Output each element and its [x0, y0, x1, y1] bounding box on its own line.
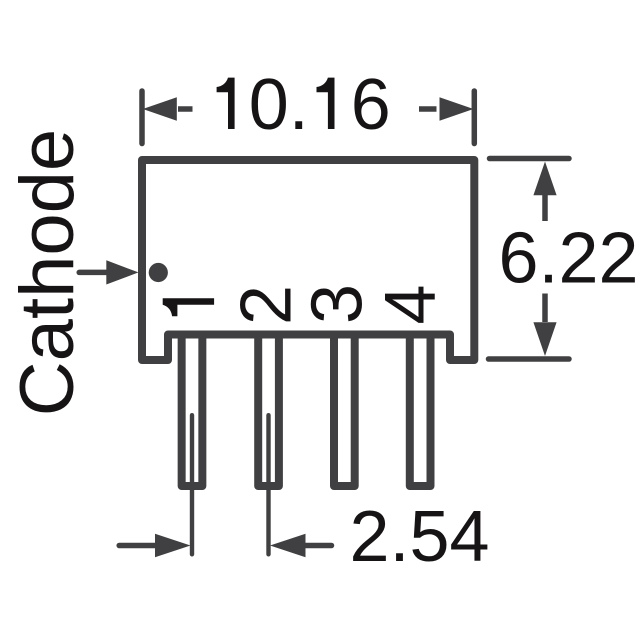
cathode dot — [149, 263, 168, 282]
dimension 6.22 bottom extension line — [489, 356, 570, 362]
svg-text:Cathode: Cathode — [5, 129, 90, 416]
package body outline — [142, 160, 474, 360]
dimension 2.54 right shaft — [305, 543, 332, 549]
pin 3 — [334, 335, 355, 486]
pin 1 — [182, 335, 203, 486]
pin 2 — [258, 335, 279, 486]
dimension 6.22 down arrowhead — [533, 322, 556, 356]
dimension 6.22 lower shaft stub — [542, 294, 548, 323]
svg-text:6: 6 — [351, 65, 391, 145]
svg-text:3: 3 — [298, 284, 378, 324]
cathode pointer arrowhead — [106, 260, 138, 284]
svg-text:0.: 0. — [249, 65, 309, 145]
dimension 10.16 right extension line — [472, 91, 478, 144]
svg-text:2.54: 2.54 — [350, 497, 490, 577]
dimension 10.16 right shaft stub — [419, 106, 437, 112]
dimension 6.22 upper shaft stub — [542, 195, 548, 221]
dimension 10.16 left extension line — [139, 91, 145, 144]
pin 2 centerline — [266, 415, 270, 554]
dimension 2.54 left arrowhead (points right) — [155, 534, 191, 557]
dimension 10.16 left arrowhead — [143, 97, 177, 120]
dimension 2.54 left shaft — [119, 543, 156, 549]
dimension 2.54 right arrowhead (points left) — [270, 534, 306, 557]
cathode pointer arrow shaft — [79, 270, 108, 276]
pin 4 — [410, 335, 431, 486]
dimension 10.16 right arrowhead — [440, 97, 474, 120]
dimension text 10.16 digit 1 (second) — [317, 78, 335, 129]
svg-text:4: 4 — [371, 285, 451, 325]
dimension 6.22 up arrowhead — [533, 162, 556, 196]
dimension text 10.16 digit 1 (first) — [217, 78, 235, 129]
svg-text:2: 2 — [227, 285, 307, 325]
pin number 1 — [163, 298, 214, 316]
dimension 6.22 top extension line — [490, 156, 570, 162]
dimension 10.16 left shaft stub — [178, 106, 193, 112]
pin 1 centerline — [190, 415, 194, 554]
svg-text:6.22: 6.22 — [499, 219, 639, 299]
